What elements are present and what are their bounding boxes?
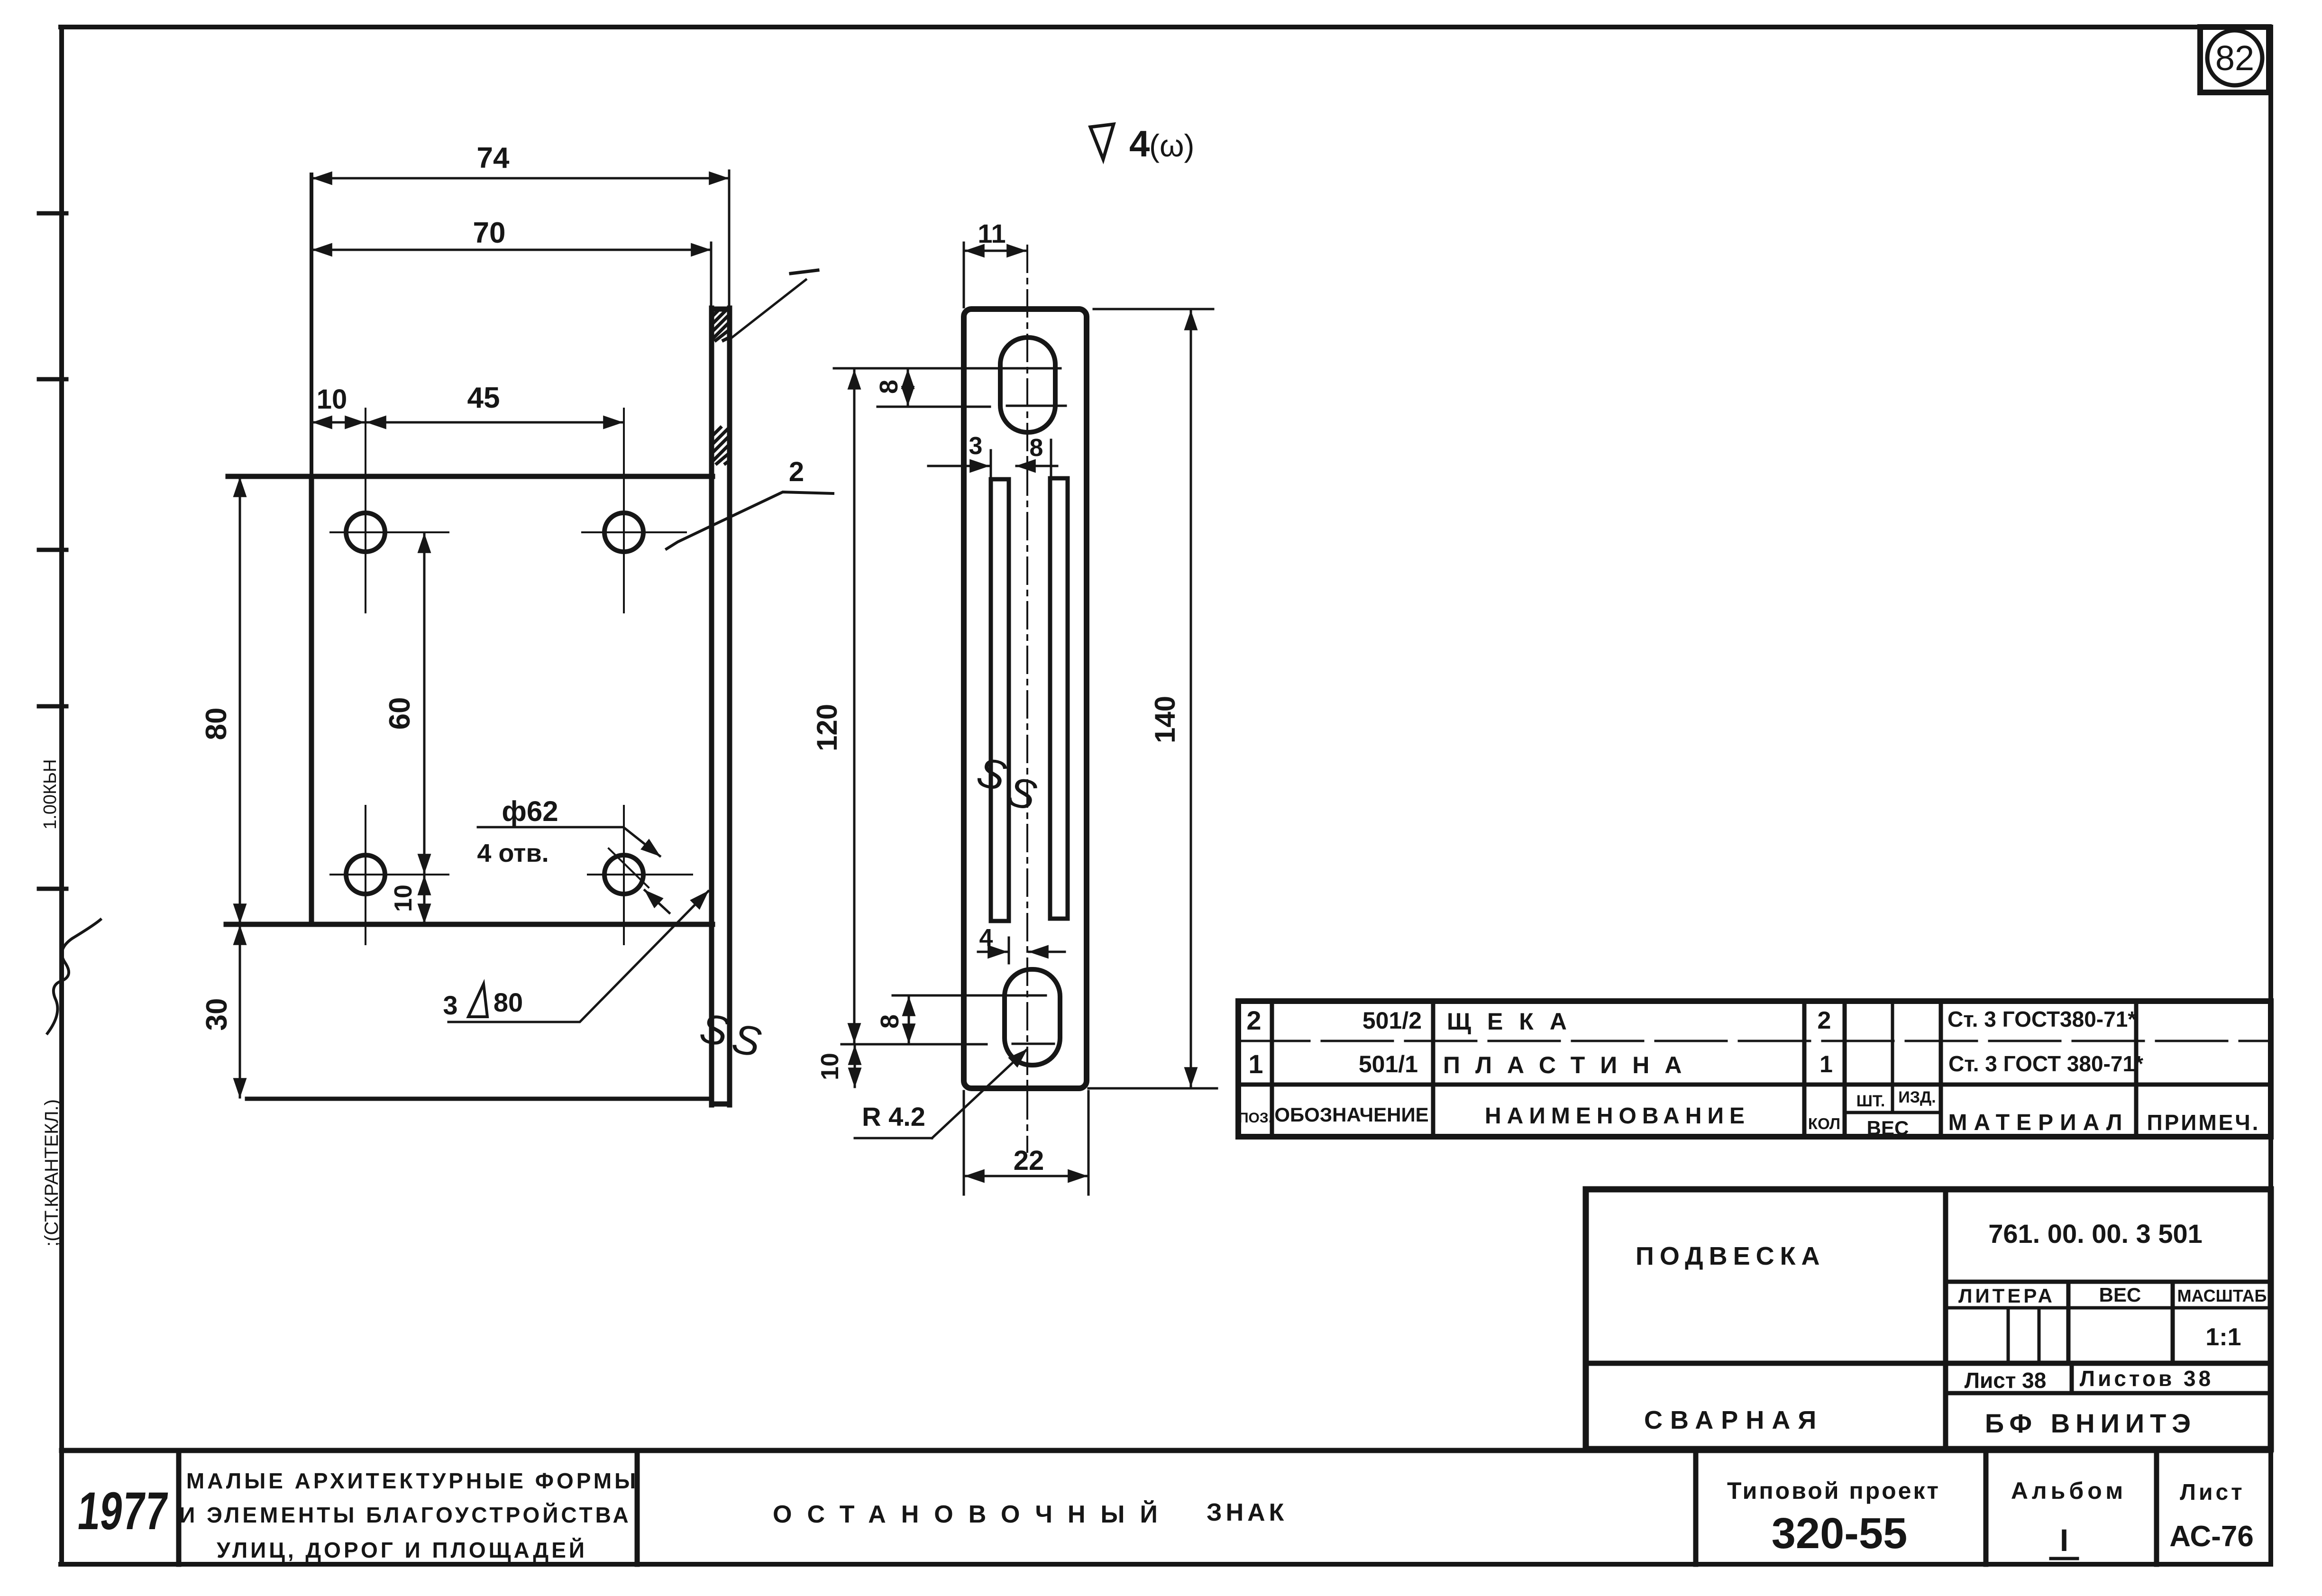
svg-text:ПЛАСТИНА: ПЛАСТИНА [1443,1052,1697,1078]
svg-text:УЛИЦ, ДОРОГ И ПЛОЩАДЕЙ: УЛИЦ, ДОРОГ И ПЛОЩАДЕЙ [217,1538,587,1562]
svg-text:БФ ВНИИТЭ: БФ ВНИИТЭ [1985,1408,2196,1438]
svg-text:ПРИМЕЧ.: ПРИМЕЧ. [2147,1110,2260,1135]
svg-text:320-55: 320-55 [1772,1509,1907,1558]
TITLE BLOCK [1586,1189,2271,1449]
svg-text:501/1: 501/1 [1359,1051,1418,1077]
sheet number badge 82 [2200,27,2269,92]
svg-text:45: 45 [467,382,500,414]
svg-text:Ст. 3 ГОСТ 380-71*: Ст. 3 ГОСТ 380-71* [1948,1051,2143,1076]
svg-text:ОБОЗНАЧЕНИЕ: ОБОЗНАЧЕНИЕ [1274,1104,1428,1126]
dimension 70 [313,243,711,307]
svg-text:ЛИТЕРА: ЛИТЕРА [1958,1285,2055,1307]
column pos [1270,1001,1274,1137]
litera column divider [2066,1282,2071,1363]
svg-text:И ЭЛЕМЕНТЫ БЛАГОУСТРОЙСТВА: И ЭЛЕМЕНТЫ БЛАГОУСТРОЙСТВА [179,1503,631,1527]
line under litera/ves/masshtab header [1946,1306,2271,1310]
svg-text:1: 1 [1248,1049,1263,1079]
dimension 60 between hole rows [423,534,426,873]
svg-text:4: 4 [979,924,993,952]
svg-text:ПОДВЕСКА: ПОДВЕСКА [1636,1242,1826,1270]
svg-text:R 4.2: R 4.2 [862,1102,925,1131]
divider before album [1984,1450,1989,1564]
registration tick marks on left border [39,213,66,889]
svg-text:70: 70 [473,217,506,249]
svg-text:Ст. 3 ГОСТ380-71*: Ст. 3 ГОСТ380-71* [1947,1007,2136,1031]
cheek plate top edge [228,474,713,479]
svg-text:80: 80 [200,708,233,740]
vertical plate top cap [712,307,730,312]
cheek plate bottom edge [226,922,713,927]
svg-text:МАТЕРИАЛ: МАТЕРИАЛ [1948,1110,2129,1135]
svg-text:ИЗД.: ИЗД. [1898,1088,1936,1106]
column ves end [1939,1001,1943,1137]
litera sub divider a [2007,1308,2010,1363]
hole top-left [346,513,385,552]
column sht/izd divider [1891,1001,1894,1113]
divider before project [1693,1450,1699,1564]
top slot obround [1000,337,1055,432]
svg-text:761. 00. 00. 3 501: 761. 00. 00. 3 501 [1988,1219,2203,1249]
svg-text:S: S [972,748,1011,800]
BOTTOM STRIP [62,1450,2271,1564]
svg-text:ПОЗ.: ПОЗ. [1238,1110,1272,1126]
left inner slot [991,479,1009,921]
column kol [1843,1001,1847,1137]
svg-text:АС-76: АС-76 [2169,1520,2254,1553]
svg-text:4 отв.: 4 отв. [477,839,549,867]
dimension 80 [239,478,241,923]
margin signature squiggle [47,920,101,1033]
svg-text:Альбом: Альбом [2011,1477,2127,1504]
svg-text:НАИМЕНОВАНИЕ: НАИМЕНОВАНИЕ [1485,1104,1750,1129]
svg-text:8: 8 [876,1014,904,1029]
svg-text:80: 80 [494,987,523,1017]
faint leader to upper weld zone [732,270,818,337]
svg-text:ОСТАНОВОЧНЫЙ: ОСТАНОВОЧНЫЙ [773,1500,1173,1528]
column material end [2134,1001,2139,1137]
frame left border [59,27,64,1564]
divider after series name [635,1450,640,1564]
svg-text:ВЕС: ВЕС [1867,1117,1909,1139]
svg-text:ф62: ф62 [502,795,558,827]
dimension 8 bottom [908,997,910,1043]
surface finish mark nabla 4 [1090,124,1114,159]
strip top line [62,1448,2271,1453]
svg-text:Лист: Лист [2180,1480,2245,1505]
frame bottom border [61,1562,2271,1567]
top slot arc-center line lower [878,406,990,408]
right inner slot [1050,478,1068,919]
svg-text:Типовой проект: Типовой проект [1727,1477,1940,1504]
svg-text:4: 4 [1129,123,1150,164]
dimension 8 top [907,370,909,405]
svg-text:2: 2 [1246,1005,1261,1035]
dimension 10 bottom [854,1046,856,1087]
list/listov divider [2070,1363,2074,1393]
ves sub header line [1847,1111,1939,1114]
PARTS TABLE (specification) [1238,1001,2271,1137]
svg-text:1: 1 [1819,1051,1833,1077]
svg-text:ЩЕКА: ЩЕКА [1447,1008,1583,1035]
bottom extension line at bar end level [247,1097,712,1101]
svg-text:S: S [728,1014,765,1066]
vertical plate bottom cap [712,1102,730,1107]
svg-text:ВЕС: ВЕС [2099,1284,2141,1306]
svg-text:8: 8 [1030,434,1043,462]
svg-text:140: 140 [1149,696,1181,743]
svg-text:1:1: 1:1 [2205,1323,2241,1351]
svg-text:2: 2 [1818,1007,1831,1034]
svg-text:3: 3 [443,990,457,1020]
frame top border [61,25,2271,29]
hole bottom-left [346,855,385,894]
dimension 11 [964,243,1026,307]
bottom slot arc-center line upper [893,994,1046,997]
svg-text:ЗНАК: ЗНАК [1207,1499,1288,1526]
dimension 10 and 45 for holes [313,421,622,424]
svg-text:10: 10 [317,384,347,415]
svg-text:1.00КЬН: 1.00КЬН [40,759,60,830]
FRONT VIEW: cheek plate with four holes [226,174,730,1105]
svg-text:10: 10 [816,1053,844,1080]
bottom slot arc-center line lower [841,1043,987,1046]
svg-text:22: 22 [1014,1145,1044,1176]
svg-text:КОЛ: КОЛ [1808,1115,1840,1132]
bottom slot obround [1005,969,1060,1065]
svg-text:74: 74 [477,142,510,174]
hole centerlines vertical [365,409,366,612]
hole top-right [604,513,643,552]
svg-text:60: 60 [384,697,416,730]
svg-text:ШТ.: ШТ. [1856,1092,1885,1110]
svg-text:120: 120 [811,704,843,751]
svg-text:1977: 1977 [75,1481,171,1541]
svg-text:11: 11 [978,219,1006,248]
svg-text:3: 3 [969,432,983,460]
dimension 10 lower [423,876,426,923]
svg-text:МАЛЫЕ АРХИТЕКТУРНЫЕ ФОРМЫ: МАЛЫЕ АРХИТЕКТУРНЫЕ ФОРМЫ [186,1468,639,1493]
svg-text:501/2: 501/2 [1362,1007,1422,1034]
divider after year [176,1450,182,1564]
column oboznachenie [1431,1001,1435,1137]
divider before sheet [2154,1450,2159,1564]
svg-text:;(СТ.КРАНТЕКЛ.): ;(СТ.КРАНТЕКЛ.) [41,1099,62,1247]
title block main vertical divider [1943,1189,1948,1449]
svg-text:I: I [2060,1523,2068,1558]
line under list/listov row [1946,1391,2271,1395]
cheek plate left edge with dim extension [310,174,313,924]
svg-text:(ω): (ω) [1149,128,1195,163]
weld hatch zone lower on bar [712,428,729,464]
dimension 120 [853,370,856,1042]
svg-text:30: 30 [201,998,233,1031]
column naimenovanie [1802,1001,1807,1137]
hole centerlines horizontal top row [330,409,692,944]
svg-text:82: 82 [2215,38,2254,78]
plate vertical centerline [1026,246,1028,1152]
ves column divider [2171,1282,2175,1363]
top slot arc-center line upper [834,367,1060,370]
dimension 74 [313,171,729,306]
hole bottom-right [604,855,643,894]
dimension 140 [1088,309,1217,1088]
line under drawing number [1946,1280,2271,1284]
svg-text:8: 8 [875,380,903,394]
row separator 2 (header top) [1238,1083,2271,1087]
dimension 30 [239,926,241,1097]
svg-text:СВАРНАЯ: СВАРНАЯ [1644,1406,1824,1434]
vertical plate edge-on left face [709,308,714,1105]
main horizontal divider [1586,1361,2271,1366]
svg-text:Листов 38: Листов 38 [2080,1366,2213,1391]
side plate outline [964,309,1087,1088]
weld hatch zone upper on bar [712,309,729,340]
svg-text:Лист 38: Лист 38 [1965,1368,2047,1393]
row separator 1 [1238,1040,2271,1042]
dimension 22 [964,1091,1088,1195]
frame right border [2268,27,2273,1564]
svg-text:МАСШТАБ: МАСШТАБ [2177,1286,2267,1305]
litera sub divider b [2038,1308,2041,1363]
vertical plate edge-on right face [727,308,732,1105]
svg-text:10: 10 [390,885,417,912]
svg-text:2: 2 [789,456,804,487]
